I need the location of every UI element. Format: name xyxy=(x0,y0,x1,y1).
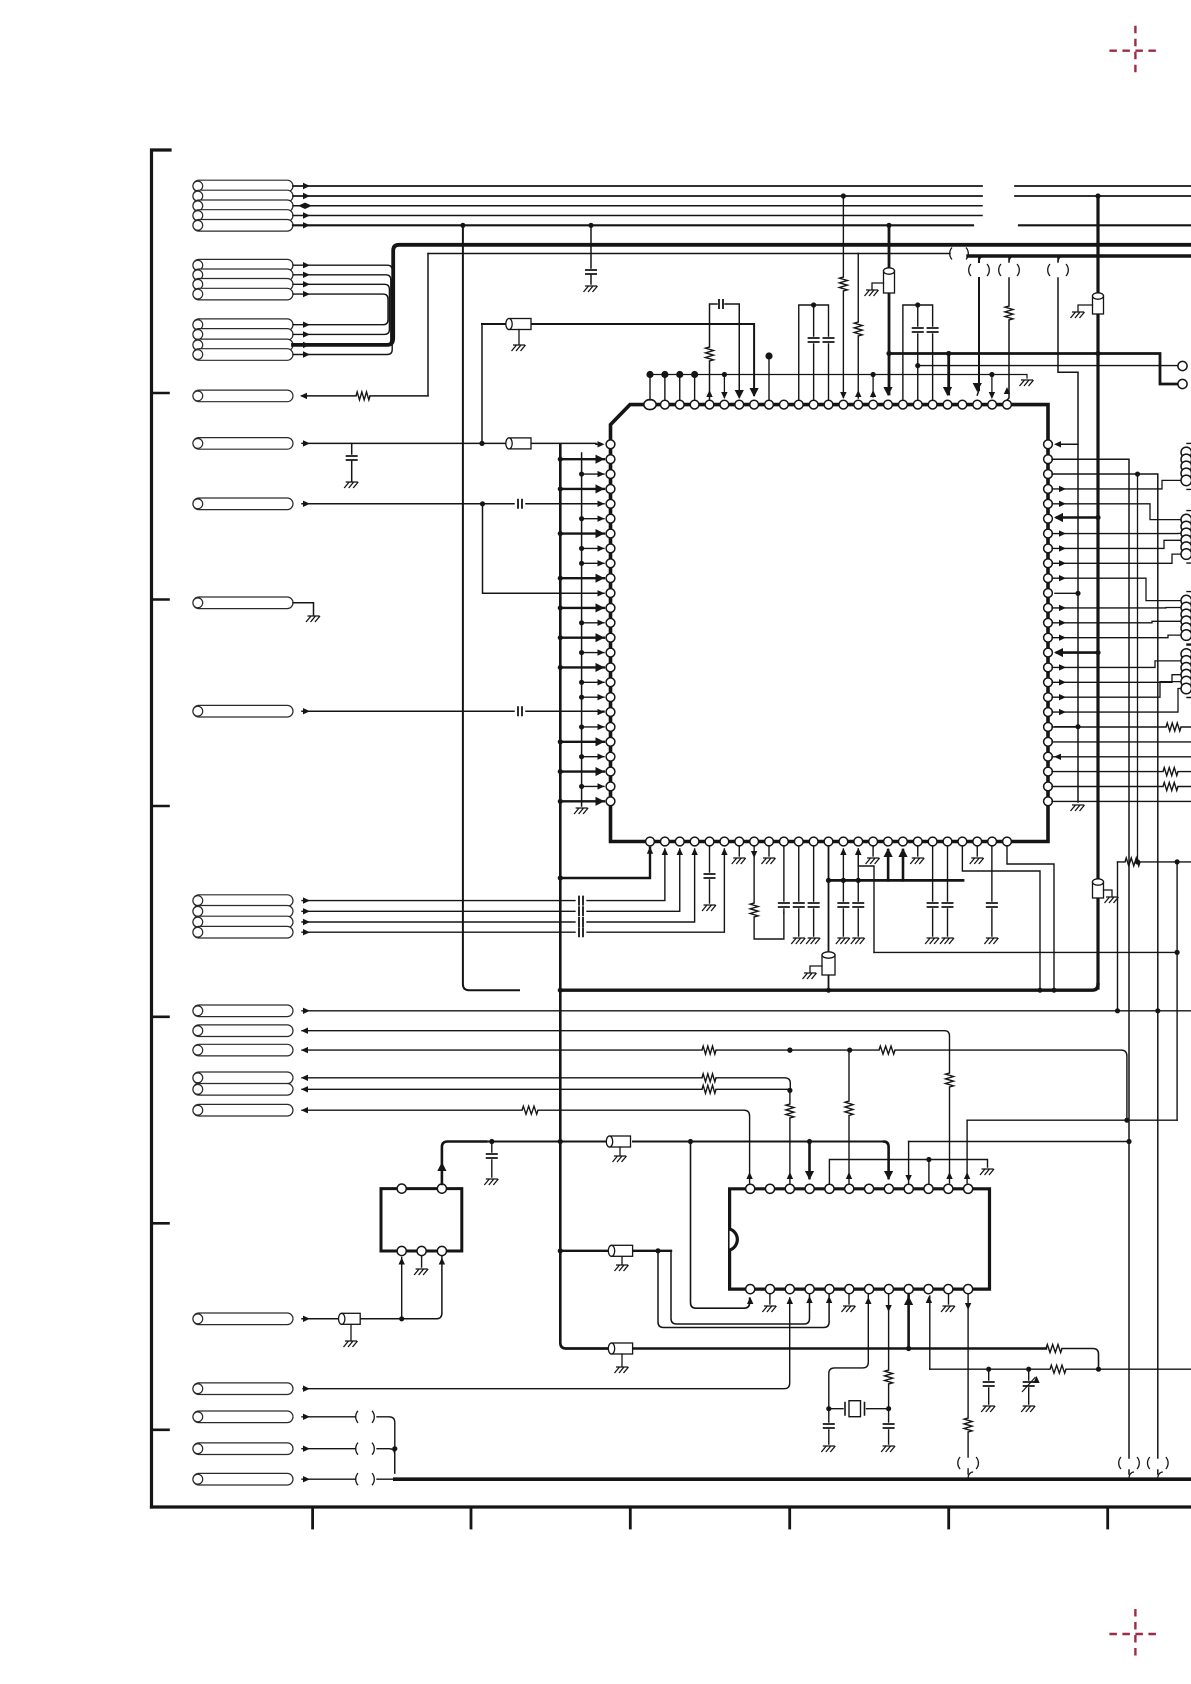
connector pin pill P4-1 xyxy=(193,895,293,907)
wire y=1348.5 tail to x=1098.5 drop xyxy=(1062,1349,1099,1370)
border tick left y=1223.3 xyxy=(152,1222,169,1225)
wire x=979 drop to top pin23 xyxy=(978,257,980,390)
connector pin pill P5-1 xyxy=(193,390,293,402)
connector pin pill P4-4 xyxy=(193,926,293,938)
wire x=1058 jog to right pin1 xyxy=(1057,257,1078,444)
border tick left y=1016.8 xyxy=(152,1015,169,1018)
cap chain below rail x=843 xyxy=(842,880,844,936)
capacitor drop at x=491.8 xyxy=(491,1142,493,1178)
bus x=1137.5 vertical xyxy=(1137,474,1139,862)
ground below IC603 pin6 xyxy=(848,1294,850,1304)
wire x=1117.5 vertical xyxy=(1117,862,1119,1011)
resistor R on pill-395 line xyxy=(356,392,370,400)
thick bus y=244.8 to x=393 corner xyxy=(293,245,1191,345)
thick branch y=353.5 to top pin21 xyxy=(889,354,949,395)
connector pin pill P1-4 xyxy=(193,210,293,222)
bus x=690.5 from bead rail down xyxy=(691,1142,750,1309)
resistor R above crystal right xyxy=(885,1370,893,1384)
electrolytic capacitor C (cylinder) xyxy=(822,952,835,975)
ground below bead y=1348 xyxy=(621,1354,623,1366)
connector pin pill P1-3 xyxy=(193,200,293,212)
IC601 top pin row (pins 1-25) xyxy=(644,400,1012,410)
thick riser IC602 pin to bead rail xyxy=(442,1142,486,1185)
border tick bottom x=948.7 xyxy=(947,1507,950,1528)
dot merge pill1448 into riser xyxy=(392,1446,397,1451)
connector pin pill P5-8 xyxy=(193,1044,293,1056)
wire pill1010 net xyxy=(302,1010,1191,1012)
riser to IC602 bpin1 xyxy=(401,1258,403,1319)
capacitor C in series pill503 line xyxy=(518,499,522,509)
connector pin pill P5-14 xyxy=(193,1411,293,1423)
wire x=1009 drop with resistor to top pin25 xyxy=(1007,257,1009,400)
capacitor pair below bottom pins 20+21 xyxy=(933,846,948,936)
capacitor on pill443 line xyxy=(351,443,353,454)
wire net3 y=205.8 xyxy=(293,205,982,207)
connector pin pill P2-3 xyxy=(193,279,293,291)
wire U-bend 265.2 to 354.5 xyxy=(293,265,392,354)
ground below IC603 pin2 xyxy=(769,1294,771,1304)
wire U-bend 294.1 to 324.7 xyxy=(293,294,388,325)
wire pill602 to ground xyxy=(293,603,314,615)
drop y=1120.2 to IC603 pin12 xyxy=(966,1120,968,1183)
connector pin pill P5-16 xyxy=(193,1473,293,1485)
ferrite bead L on x=1098 bus xyxy=(1093,293,1104,314)
bus x=1157.8 vertical xyxy=(1052,474,1158,1474)
IC601 right pin row xyxy=(1044,440,1053,806)
ground at bottom of x=1078 bus xyxy=(1071,805,1085,811)
border tick bottom x=630.3 xyxy=(629,1507,632,1528)
connector pin pill P1-1 xyxy=(193,180,293,192)
connector pin pill P5-2 xyxy=(193,438,293,450)
thick bus x=1098 from net2 down right side of IC xyxy=(1096,196,1099,988)
wire+resistor right pin23 to edge xyxy=(1052,771,1191,773)
thick stub into right pin6 xyxy=(1057,516,1098,519)
bus x=462.9 vertical (net5 drop) xyxy=(463,225,519,990)
ferrite bead L on pill1318 line xyxy=(339,1313,361,1324)
bus B x=581.6 left of IC xyxy=(581,453,583,806)
wire pill1050 net xyxy=(302,1050,1127,1120)
thin bus y=374.5 above top pins xyxy=(650,375,1027,379)
ground stub at electrolytic xyxy=(810,966,822,972)
resistor R on pill1089 line xyxy=(702,1085,716,1093)
wire+resistor right pin24 to edge xyxy=(1052,786,1191,788)
connector pin pill P3-1 xyxy=(193,319,293,331)
bead rail y=1141.5 xyxy=(486,1141,884,1143)
bus A branch corner to bottom pin1 riser xyxy=(560,848,650,878)
resistor R on pill1077 line xyxy=(702,1074,716,1082)
border tick left y=806 xyxy=(152,805,169,808)
wire riser x=874 from IC bottom xyxy=(858,849,874,952)
connector pin pill P5-3 xyxy=(193,498,293,510)
stub thick rail to bottom pin14 xyxy=(842,849,844,880)
resistor chain below bottom pin8 xyxy=(754,846,784,939)
connector crossing mark at x=1058 y=269 xyxy=(1048,264,1050,276)
IC602 small IC body xyxy=(381,1189,462,1251)
wire pill1077 net xyxy=(302,1078,790,1091)
wire thin y=253.5 from x=428 xyxy=(428,253,950,255)
wire U-bend 284.3 to 334.4 xyxy=(293,284,389,334)
stub drop top pin16 xyxy=(872,375,874,398)
border tick left y=599.5 xyxy=(152,598,169,601)
resistor R on y=1348.5 rail xyxy=(1046,1345,1062,1353)
connector pin pill P5-4 xyxy=(193,597,293,609)
wire pill1030 net xyxy=(302,1031,950,1073)
wire right pin22 to edge xyxy=(1052,756,1191,758)
drop line C to IC603 pin10 xyxy=(928,1160,930,1184)
thin wire y=365.6 to right edge connector xyxy=(918,365,1177,367)
thick bus y=256 right section xyxy=(968,254,1191,257)
border tick bottom x=471 xyxy=(470,1507,473,1528)
thick stub into right pin15 xyxy=(1057,651,1098,654)
border tick bottom x=312.6 xyxy=(311,1507,314,1528)
ground at end of line C xyxy=(980,1169,994,1175)
ground below bottom pin7 xyxy=(738,846,740,856)
no-connect dots above top pins 1-4 xyxy=(646,371,698,400)
resistor R on pill1110 line xyxy=(522,1106,538,1114)
crystal X601 xyxy=(829,1408,889,1410)
border tick bottom x=1107.7 xyxy=(1106,1507,1109,1528)
ground below bottom pin23 xyxy=(976,846,978,856)
ground at bottom of bus B xyxy=(574,808,588,814)
wire IC603 bpin7 to crystal xyxy=(865,1297,871,1304)
connector pin pill P5-12 xyxy=(193,1313,293,1325)
ground below bead2 xyxy=(621,1257,623,1265)
trimmer capacitor at x=1028.7 xyxy=(1028,1369,1030,1404)
wire U-bend 274.8 to 344.9 xyxy=(293,275,391,345)
wire pill1448 with connector crossing xyxy=(302,1449,395,1473)
border tick bottom x=789.7 xyxy=(788,1507,791,1528)
IC601 main QFP body outline xyxy=(611,405,1049,842)
connector pin pill P5-15 xyxy=(193,1443,293,1455)
border frame left edge xyxy=(152,150,171,1507)
ferrite bead L y=1141.5 xyxy=(606,1136,630,1147)
registration mark top-right xyxy=(1109,26,1161,76)
stub drop top pin6 xyxy=(723,375,725,398)
connector pin pill P2-1 xyxy=(193,259,293,271)
wire y=1120.2 net xyxy=(967,1119,1177,1121)
wire x=1177.1 vertical xyxy=(1176,862,1178,1120)
connector pin pill P2-4 xyxy=(193,288,293,300)
wire IC603 bpin10 riser to y1369 net xyxy=(929,1296,931,1369)
connector circle right edge y=366 xyxy=(1178,361,1187,370)
thick riser IC603 bpin9 xyxy=(907,1294,910,1349)
connector pin pill P4-3 xyxy=(193,916,293,928)
thick arrows to bottom pins 17+18 xyxy=(887,850,890,880)
ferrite bead L at (519,324) xyxy=(506,319,531,330)
line C y=1159.5 over IC603 xyxy=(829,1160,987,1184)
capacitor C in series pill711 line xyxy=(518,706,522,716)
electrolytic below bottom pin13 xyxy=(828,846,830,990)
connector crossing at bus1129 bottom xyxy=(1119,1457,1121,1469)
wire+resistor right pin20 to edge xyxy=(1052,726,1191,728)
connector pin pill P5-9 xyxy=(193,1072,293,1084)
connector pin pill P2-2 xyxy=(193,269,293,281)
ground below IC602 bpin2 xyxy=(421,1256,423,1267)
border tick left y=1429.8 xyxy=(152,1429,169,1432)
thick bus y=990.2 below IC xyxy=(562,984,1098,990)
ground below bottom pin16 xyxy=(872,846,874,856)
resistor R2 on pill1050 line xyxy=(879,1046,895,1054)
wire pill711 to left pin19 xyxy=(302,710,604,713)
ground at right end of y=374.5 bus xyxy=(1020,380,1034,386)
capacitor pair below bottom pins 11+12 xyxy=(799,846,814,936)
ferrite bead L lower on x=1098 bus xyxy=(1093,879,1104,898)
IC601 left pin stub wires from buses xyxy=(558,455,605,806)
wire pill1089 net xyxy=(302,1088,790,1090)
wire net2 y=196 xyxy=(293,195,1191,197)
wire pill503 to left pin5 xyxy=(302,503,604,505)
wire pill443 to left pin1 xyxy=(302,442,599,445)
ground stub at bead x=889 xyxy=(872,283,884,289)
capacitor pair over top pins 12+13 xyxy=(799,305,829,400)
thick rail y=880.4 below IC xyxy=(829,879,964,882)
IC603 bottom DIP body xyxy=(730,1189,990,1289)
ferrite bead L601 on pill443 line xyxy=(506,438,531,449)
connector pin pill P3-2 xyxy=(193,329,293,341)
connector pin pill P3-4 xyxy=(193,349,293,361)
connector pin pill P5-13 xyxy=(193,1383,293,1395)
resistor R to bottomIC pin11 xyxy=(946,1073,954,1087)
wire right pin21 to edge xyxy=(1052,741,1191,743)
wire pill1318 to IC602 bottom pins xyxy=(302,1256,442,1319)
resistor R above bottomIC pin3 xyxy=(786,1104,794,1118)
wire+resistor y=861.9 net xyxy=(1118,861,1191,863)
connector crossing at bus1157 bottom xyxy=(1148,1457,1150,1469)
IC603 bottom pin row xyxy=(746,1285,973,1294)
IC602 top pins xyxy=(397,1184,406,1193)
wire IC603 bpin12 drop xyxy=(967,1294,969,1474)
bus x=1129 vertical xyxy=(1052,459,1129,1474)
wire pill group4 y=900.6 to IC bottom pin xyxy=(302,849,665,901)
connector pin pill P1-2 xyxy=(193,190,293,202)
wire y=1369.2 net xyxy=(930,1368,1191,1370)
wire pill1416 with connector crossing xyxy=(302,1417,395,1473)
stub x=1078 to right pin11 xyxy=(1055,592,1078,594)
connector pin pill P1-5 xyxy=(193,220,293,232)
wire y=1140.6 segment to bus 1129 xyxy=(909,1141,1129,1143)
resistor drop from pill1050 junction to IC603 pin6 xyxy=(848,1116,850,1184)
ground stub at lower bead x=1098 xyxy=(1104,890,1113,896)
wire pill group4 y=922 to IC bottom pin xyxy=(302,849,695,922)
thick drop to bottomIC top pin4 xyxy=(808,1142,811,1179)
thick rail y=1348.5 with resistor xyxy=(566,1347,1046,1349)
edge connector circle columns xyxy=(1181,443,1191,697)
drop to bottomIC top pin9 xyxy=(908,1142,910,1184)
IC602 bottom pins xyxy=(397,1246,406,1255)
ferrite bead L y=1348.5 xyxy=(608,1343,632,1354)
stub drop top pin24 xyxy=(991,375,993,398)
IC601 left pin row xyxy=(606,440,615,806)
crystal load capacitor right xyxy=(888,1409,890,1444)
wire bottom pin25 drop xyxy=(1007,846,1054,990)
resistor drop from net y=253.5 to top pin15 xyxy=(857,254,859,399)
bead2 rail y=1250.8 xyxy=(560,1250,671,1252)
connector pin pill P5-6 xyxy=(193,1005,293,1017)
resistor R x=843 xyxy=(839,277,847,291)
ground below bottom pin19 xyxy=(917,846,919,856)
ground stub below bead 519 xyxy=(518,330,520,345)
thick wire y=353.5 to right edge connector xyxy=(949,354,1177,385)
connector crossing marks on net y=253.5 xyxy=(950,248,952,260)
thick bus x=889 bead drop to top pin17 xyxy=(888,225,891,394)
wire net5 y=225.3 xyxy=(293,224,1191,226)
resistor R at x=1009 xyxy=(1005,306,1013,320)
wire resistor feed to pill 395.9 xyxy=(302,395,428,397)
staircase wires right pins to edge connector xyxy=(1052,480,1180,715)
wire pill group4 y=932.2 to IC bottom pin xyxy=(302,849,724,932)
crystal load capacitor left xyxy=(828,1409,830,1444)
registration mark bottom-right xyxy=(1109,1609,1161,1659)
wire IC603 bpin8 through resistor xyxy=(888,1294,890,1409)
resistor drop from net2 to top pin14 xyxy=(842,196,844,397)
no-connect dot above top pin 9 xyxy=(765,352,772,359)
wire bottom pin22 drop to bus xyxy=(962,846,1040,990)
resistor R below pin8 xyxy=(750,903,758,917)
wire loop with series cap to top pins 5+7 xyxy=(710,304,740,400)
ferrite bead L x=889 xyxy=(884,268,895,293)
stub x=1078 to right pin20 xyxy=(1055,726,1078,728)
connector pin pill P5-5 xyxy=(193,705,293,717)
wire bead line y=324 xyxy=(482,324,754,395)
wire IC603 bpin3 to pill1388 xyxy=(303,1298,790,1389)
wire x=482 vertical bead line to pill443 line xyxy=(481,324,483,443)
wire net4 y=215.5 xyxy=(293,215,982,217)
wire IC603 bpin4 to bead2 rail xyxy=(671,1251,810,1324)
connector pin pill P4-2 xyxy=(193,906,293,918)
stub thick rail to bottom pin15 xyxy=(857,849,859,880)
bus A x=560.3 left of IC xyxy=(560,444,609,1348)
capacitor pair over top pins 18+19 xyxy=(903,305,933,400)
ground below bead 620 xyxy=(619,1147,621,1155)
connector pin pill P5-11 xyxy=(193,1104,293,1116)
connector pin pill P3-3 xyxy=(193,339,293,351)
capacitor below bottom pin24 xyxy=(991,846,993,936)
wire pill1479 with connector crossing xyxy=(302,1478,395,1480)
resistor R x=709.5 xyxy=(706,347,714,361)
wire x=482.5 drop to left pin11 xyxy=(483,504,605,594)
capacitor at x=988.7 xyxy=(988,1369,990,1404)
cap chain below rail x=858 xyxy=(857,880,859,936)
ground stub at bead x=1098 xyxy=(1078,305,1093,311)
IC601 bottom pin row xyxy=(646,837,1012,846)
wire x=789.9 drop to bottomIC pin3 xyxy=(789,1090,791,1183)
wire right pin25 to edge xyxy=(1052,800,1191,802)
connector crossing at bpin12 drop xyxy=(958,1457,960,1469)
capacitor below bottom pin10 xyxy=(783,846,785,901)
wire IC603 bpin5 drop xyxy=(658,1251,829,1328)
thick corner drop to bottomIC top pin8 xyxy=(884,1142,889,1179)
connector crossing mark at x=1009 y=269 xyxy=(999,264,1001,276)
resistor R on bpin12 drop xyxy=(964,1418,972,1432)
ferrite bead L y=1250.8 xyxy=(608,1245,632,1256)
connector circle right edge y=384 xyxy=(1178,379,1187,388)
border frame bottom edge xyxy=(152,1505,1191,1508)
connector pin pill P5-10 xyxy=(193,1084,293,1096)
wire net1 y=186 xyxy=(293,185,1191,187)
IC603 top pin row xyxy=(746,1184,973,1193)
wire x=591 decoupling drop xyxy=(590,225,592,268)
bus x=1078 right of IC xyxy=(1077,444,1079,802)
resistor R on y=1369.2 net xyxy=(1050,1365,1066,1373)
capacitor+ground below bottom pin5 xyxy=(709,846,711,903)
border tick left y=393 xyxy=(152,392,169,395)
resistor R on pill1050 line xyxy=(702,1046,716,1054)
connector pin pill P5-7 xyxy=(193,1025,293,1037)
ground below bottom pin9 xyxy=(768,846,770,856)
resistor R x=858 xyxy=(854,322,862,336)
capacitor C series at (721,304) xyxy=(719,299,723,309)
wire x=428 vertical to resistor line xyxy=(427,254,429,396)
capacitor C at x=591 xyxy=(585,270,597,274)
wire y=952.4 net xyxy=(874,951,1177,953)
thick bottom bus y=1479.2 xyxy=(395,1477,1191,1481)
ground below bead pill1318 xyxy=(350,1324,352,1340)
connector crossing mark at x=979 y=269 xyxy=(969,264,971,276)
ground below IC603 pin11 xyxy=(948,1294,950,1304)
wire pill group4 y=911.3 to IC bottom pin xyxy=(302,849,680,911)
wire pill1110 net to bottomIC pin1 xyxy=(302,1110,750,1183)
